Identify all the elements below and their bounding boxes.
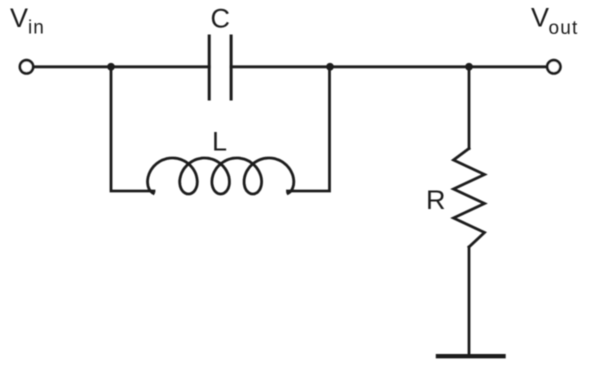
node B junction dot bbox=[326, 63, 334, 71]
capacitor C bbox=[209, 36, 231, 99]
svg-text:R: R bbox=[426, 185, 446, 215]
svg-text:V: V bbox=[10, 3, 28, 33]
wire: node C down to resistor bbox=[468, 67, 471, 149]
node C junction dot bbox=[465, 63, 473, 71]
node A junction dot bbox=[107, 63, 115, 71]
svg-text:V: V bbox=[531, 3, 549, 33]
svg-text:in: in bbox=[28, 18, 45, 39]
ground bbox=[438, 354, 504, 358]
resistor R bbox=[454, 149, 485, 248]
wire: right capacitor plate to Vout terminal bbox=[231, 65, 546, 68]
input terminal bbox=[20, 60, 33, 73]
svg-text:out: out bbox=[549, 18, 579, 39]
wire: Vin terminal to left capacitor plate bbox=[34, 65, 209, 68]
wire: left branch down from node A bbox=[111, 67, 154, 191]
svg-text:C: C bbox=[211, 4, 231, 34]
inductor L bbox=[148, 158, 294, 194]
svg-text:L: L bbox=[212, 127, 227, 157]
output terminal bbox=[547, 60, 560, 73]
wire: right branch up to node B bbox=[288, 67, 330, 191]
wire: resistor to ground bbox=[468, 247, 471, 355]
